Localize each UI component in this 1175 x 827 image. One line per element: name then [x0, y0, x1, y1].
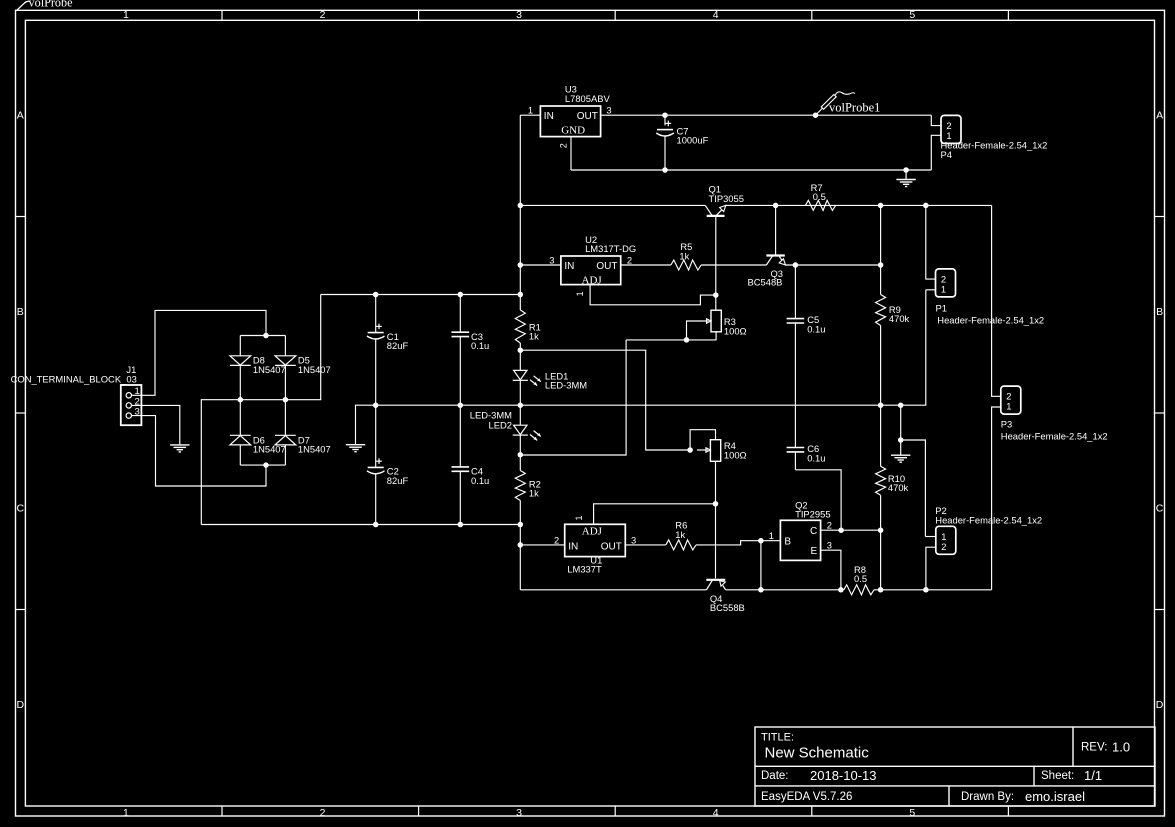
node gnd branch top [898, 437, 904, 443]
node gnd stem P4 [903, 167, 909, 173]
wire U3 pin1 [520, 114, 540, 116]
svg-text:470k: 470k [889, 313, 910, 324]
ground mid rail [346, 445, 365, 452]
node R10/Q2C [878, 527, 884, 533]
C7 labels [677, 125, 709, 145]
terminal block J1 box [121, 385, 142, 425]
wire P4 pin1 down [931, 135, 941, 170]
svg-text:2: 2 [320, 807, 326, 819]
D8 labels [253, 355, 286, 375]
svg-text:0.1u: 0.1u [471, 340, 489, 351]
node bus/top rail [518, 292, 524, 298]
P4 labels [941, 140, 1048, 160]
wire cap bottom rail [201, 524, 520, 526]
svg-text:82uF: 82uF [387, 475, 409, 486]
wire P2 pin1 stub [925, 536, 935, 538]
wire D8 top stem [239, 336, 241, 356]
Q2 pin 2 number [827, 519, 832, 530]
node Q2 base branch [758, 538, 764, 544]
wire R3 bottom [626, 332, 716, 340]
header P1 [936, 269, 956, 297]
node Q2E/rail [838, 587, 844, 593]
D7 labels [298, 434, 331, 454]
regulator U2 box [561, 256, 621, 286]
wire U1 ADJ [594, 504, 716, 525]
diode D5 [275, 356, 296, 366]
node Q3/C5 [793, 262, 799, 268]
svg-text:1k: 1k [529, 331, 539, 342]
U3 labels [565, 84, 611, 104]
Q3 labels [748, 268, 784, 287]
svg-text:TIP2955: TIP2955 [795, 509, 830, 520]
J1 labels [11, 364, 137, 385]
C2 labels [387, 466, 409, 486]
header P2 [936, 526, 956, 554]
wire P1 pin1 [926, 289, 936, 291]
node Q3 base top [773, 203, 779, 209]
wire C6 to Q2 collector [795, 470, 841, 530]
svg-text:1/1: 1/1 [1084, 768, 1102, 783]
svg-text:OUT: OUT [601, 541, 622, 552]
wire R6 to Q2 base [696, 541, 780, 545]
node C1 top [373, 292, 379, 298]
svg-text:100Ω: 100Ω [724, 325, 747, 336]
capacitor C7 [656, 115, 674, 170]
wire left bus upper [519, 115, 521, 310]
Q2 labels [795, 499, 830, 519]
resistor R6 [666, 540, 696, 550]
svg-text:5: 5 [909, 807, 915, 819]
svg-text:1: 1 [528, 105, 533, 116]
svg-text:Sheet:: Sheet: [1041, 770, 1074, 782]
svg-text:0.5: 0.5 [813, 191, 826, 202]
R2 labels [529, 478, 541, 498]
ground right [891, 455, 910, 462]
node bridge bottom [263, 462, 269, 468]
node bridge left mid [238, 397, 244, 403]
wire P3 pin1 [992, 407, 1001, 590]
node C4 bottom [458, 522, 464, 528]
U2 labels [585, 234, 636, 254]
Q1 labels [709, 183, 744, 204]
diode D7 [275, 435, 296, 445]
svg-text:1N5407: 1N5407 [298, 444, 331, 455]
C1 labels [387, 331, 409, 351]
regulator U3 box [540, 106, 600, 137]
R5 labels [679, 241, 692, 261]
R6 labels [675, 520, 687, 540]
wire Q2 collector [821, 529, 881, 531]
node bus/Q1 rail [518, 203, 524, 209]
node C1 bottom [373, 402, 379, 408]
svg-text:Header-Female-2.54_1x2: Header-Female-2.54_1x2 [1001, 430, 1108, 441]
svg-text:0.1u: 0.1u [807, 452, 825, 463]
svg-text:C: C [810, 526, 817, 537]
svg-text:LED2: LED2 [489, 419, 512, 430]
svg-text:1: 1 [1006, 401, 1011, 412]
svg-text:1k: 1k [529, 488, 539, 499]
wire R5 to Q3 [701, 264, 766, 266]
svg-text:4: 4 [713, 9, 719, 21]
node R4 wiper/top [687, 447, 693, 453]
wire bottom rail right [874, 589, 992, 591]
svg-text:L7805ABV: L7805ABV [565, 93, 611, 104]
svg-text:1k: 1k [679, 250, 689, 261]
wire bus to U1 pin2 [520, 544, 564, 546]
wire R1 to LED1 [519, 343, 521, 370]
svg-text:OUT: OUT [596, 261, 617, 272]
wire LED1 to rail [519, 380, 521, 425]
resistor R10 [876, 405, 886, 590]
wire Q1 rail right [726, 204, 992, 206]
svg-text:Drawn By:: Drawn By: [961, 791, 1014, 803]
node Q2C junction [838, 527, 844, 533]
wire P4 pin2 jog [931, 115, 941, 125]
node ADJ/R3/Q1 [713, 292, 719, 298]
wire P3 pin2 [992, 205, 1001, 396]
resistor R8 [844, 585, 874, 595]
R4 labels [724, 440, 747, 460]
svg-text:Header-Female-2.54_1x2: Header-Female-2.54_1x2 [937, 315, 1044, 326]
C5 labels [807, 314, 825, 334]
LED1 labels [545, 370, 587, 390]
U1 labels [567, 555, 602, 575]
svg-text:2: 2 [827, 519, 832, 530]
diode D6 [230, 435, 251, 445]
P3 labels [1001, 418, 1108, 441]
node bridge top [263, 333, 269, 339]
wire gnd rail top loop [571, 169, 931, 171]
ground near J1 [170, 445, 189, 452]
wire Q3 emitter right [786, 264, 881, 266]
node C7 top [662, 112, 668, 118]
wire U2 OUT to R5 [621, 264, 671, 266]
node bridge right mid [283, 397, 289, 403]
svg-text:4: 4 [713, 807, 719, 819]
wire R4 top loop [690, 430, 715, 450]
wire D8 to mid [239, 365, 241, 435]
C3 labels [471, 331, 489, 351]
wire Q2B branch down [760, 541, 762, 590]
svg-text:C: C [1156, 502, 1164, 514]
header P4 [941, 115, 961, 143]
svg-text:P3: P3 [1001, 418, 1012, 429]
wire U2 ADJ [590, 285, 716, 305]
R10 labels [888, 473, 909, 493]
svg-text:Header-Female-2.54_1x2: Header-Female-2.54_1x2 [941, 140, 1048, 151]
svg-text:B: B [784, 536, 791, 547]
node rail/R9R10 [878, 402, 884, 408]
node R9 mid [878, 262, 884, 268]
svg-text:D: D [1156, 699, 1164, 711]
svg-text:1: 1 [123, 9, 129, 21]
wire U3 GND down [570, 137, 572, 170]
D5 labels [298, 355, 331, 375]
svg-text:IN: IN [568, 541, 578, 552]
title block [755, 727, 1155, 806]
D6 labels [253, 434, 286, 454]
svg-text:2: 2 [320, 9, 326, 21]
R9 labels [889, 304, 910, 324]
node R7/R9 top [878, 203, 884, 209]
svg-text:2: 2 [554, 534, 559, 545]
Q4 labels [710, 593, 745, 613]
svg-text:CON_TERMINAL_BLOCK_: CON_TERMINAL_BLOCK_ [11, 374, 127, 385]
svg-text:3: 3 [516, 807, 522, 819]
wire U3 OUT to P4 [601, 114, 932, 116]
transistor Q4 [706, 580, 725, 590]
node C2 bottom [373, 522, 379, 528]
svg-text:ADJ: ADJ [582, 525, 603, 537]
svg-text:Header-Female-2.54_1x2: Header-Female-2.54_1x2 [935, 514, 1042, 525]
capacitor C3 [452, 295, 470, 406]
C4 labels [471, 466, 489, 486]
svg-text:1k: 1k [675, 529, 685, 540]
resistor R5 [671, 260, 701, 270]
diode D8 [230, 356, 251, 366]
transistor Q3 [766, 256, 785, 266]
svg-text:1: 1 [574, 515, 584, 520]
svg-text:P4: P4 [941, 149, 952, 160]
node volProbe1 [813, 112, 819, 118]
svg-text:3: 3 [549, 254, 554, 265]
svg-text:Date:: Date: [761, 770, 789, 782]
svg-text:IN: IN [544, 111, 554, 122]
node R10/rail [878, 587, 884, 593]
regulator U1 box [565, 524, 626, 556]
node bus/U1 pin2 [518, 542, 524, 548]
node R3 bottom/wiper [684, 337, 690, 343]
wire J1 pin2 to ground [132, 405, 180, 445]
svg-text:TITLE:: TITLE: [761, 732, 794, 744]
C6 labels [807, 443, 825, 463]
svg-text:0.1u: 0.1u [807, 323, 825, 334]
transistor Q2 box [780, 520, 820, 560]
svg-text:BC558B: BC558B [710, 602, 745, 613]
U1 pin 1 number [574, 515, 584, 520]
svg-text:EasyEDA V5.7.26: EasyEDA V5.7.26 [761, 791, 852, 803]
svg-text:1: 1 [575, 291, 585, 296]
node bus/U2 pin3 [518, 262, 524, 268]
svg-text:1000uF: 1000uF [677, 135, 709, 146]
capacitor C5 [787, 265, 805, 448]
svg-text:2: 2 [627, 254, 632, 265]
U2 pin 2 number [627, 254, 632, 265]
Q2 pin 3 number [827, 539, 832, 550]
LED LED2 [513, 425, 541, 440]
svg-text:C: C [17, 502, 25, 514]
svg-text:0.5: 0.5 [854, 573, 867, 584]
wire Q2 emitter [821, 550, 841, 590]
node C7 bottom [662, 167, 668, 173]
wire J1 pin1 to bridge top [132, 310, 267, 395]
svg-text:B: B [17, 306, 24, 318]
wire R2 to rail bottom [519, 501, 521, 590]
U1 pin 3 number [631, 534, 636, 545]
capacitor C1 [367, 295, 385, 406]
node P2/rail [923, 587, 929, 593]
P1 labels [936, 303, 1045, 326]
R7 labels [811, 182, 826, 202]
svg-text:volProbe: volProbe [29, 0, 73, 9]
svg-text:OUT: OUT [577, 111, 598, 122]
resistor R7 [805, 200, 835, 210]
svg-text:5: 5 [909, 9, 915, 21]
svg-text:82uF: 82uF [387, 340, 409, 351]
P2 labels [935, 505, 1042, 525]
resistor R1 [515, 310, 525, 343]
node P1 branch [923, 203, 929, 209]
svg-text:D: D [17, 699, 25, 711]
wire R3 net to LED2 [520, 340, 626, 455]
Q2 pin 1 number [769, 530, 774, 541]
svg-text:0.1u: 0.1u [471, 475, 489, 486]
svg-text:2: 2 [941, 541, 946, 552]
wire mid gnd rail [356, 290, 926, 445]
probe volProbe1 [816, 92, 881, 115]
svg-text:BC548B: BC548B [748, 277, 783, 288]
wire bridge top bar [240, 335, 285, 337]
node U1 ADJ junction [713, 501, 719, 507]
node Q2B/rail [758, 587, 764, 593]
LED LED1 [513, 370, 541, 385]
R3 labels [724, 316, 747, 336]
svg-text:TIP3055: TIP3055 [709, 193, 744, 204]
resistor R2 [515, 471, 525, 501]
probe volProbe [17, 0, 73, 10]
wire Q1 base down [715, 217, 717, 310]
svg-text:A: A [1156, 110, 1163, 122]
wire Q1 rail left [520, 204, 705, 206]
svg-text:IN: IN [564, 261, 574, 272]
svg-text:LM337T: LM337T [567, 564, 602, 575]
wire LED2 to R2 [519, 435, 521, 470]
wire bottom rail left [520, 589, 706, 591]
svg-text:volProbe1: volProbe1 [829, 101, 880, 115]
svg-text:LED-3MM: LED-3MM [545, 380, 587, 391]
svg-text:1: 1 [941, 284, 946, 295]
capacitor C2 [367, 405, 385, 524]
capacitor C6 [787, 448, 805, 470]
wire D5 top stem [284, 336, 286, 356]
svg-text:New Schematic: New Schematic [765, 745, 870, 762]
wire bottom rail mid [726, 589, 844, 591]
node bus/cap rail [518, 522, 524, 528]
U2 pin 3 number [549, 254, 554, 265]
wire P1 pin2 [926, 205, 936, 279]
wire D6 to bottom [239, 445, 241, 465]
svg-text:3: 3 [606, 105, 611, 116]
wire D7 to bottom [284, 445, 286, 465]
svg-text:P1: P1 [936, 303, 947, 314]
svg-text:2018-10-13: 2018-10-13 [810, 768, 877, 783]
header P3 [1001, 386, 1021, 414]
trimmer R4 [697, 440, 721, 462]
node LED rail [518, 402, 524, 408]
svg-text:REV:: REV: [1081, 742, 1107, 754]
wire P2 pin2 [926, 547, 936, 590]
resistor R9 [876, 205, 886, 405]
U1 pin 2 number [554, 534, 559, 545]
trimmer R3 [703, 310, 721, 332]
svg-text:GND: GND [561, 124, 585, 136]
svg-text:2: 2 [559, 143, 569, 148]
wire Q3 collector [775, 205, 777, 254]
svg-text:1N5407: 1N5407 [298, 364, 331, 375]
node C3 top [458, 292, 464, 298]
wire bus to U2 pin3 [520, 264, 561, 266]
svg-text:3: 3 [827, 539, 832, 550]
node rail/gnd branch [898, 402, 904, 408]
R8 labels [854, 564, 867, 584]
wire U1 OUT to R6 [625, 544, 666, 546]
wire R1 bottom to R4 [520, 350, 690, 450]
ground near P4 [896, 170, 915, 187]
U3 pin 2 number [559, 143, 569, 148]
svg-text:A: A [17, 110, 24, 122]
svg-text:100Ω: 100Ω [724, 449, 747, 460]
U2 pin 1 number [575, 291, 585, 296]
svg-text:470k: 470k [888, 482, 909, 493]
wire D5 to mid [284, 365, 286, 435]
transistor Q1 [705, 205, 726, 216]
capacitor C4 [452, 405, 470, 524]
svg-text:3: 3 [631, 534, 636, 545]
svg-text:3: 3 [516, 9, 522, 21]
node R1 bottom [518, 347, 524, 353]
svg-text:1: 1 [123, 807, 129, 819]
svg-text:03: 03 [126, 374, 136, 385]
J1 pin numbers [135, 386, 140, 418]
wire bridge bottom bar [240, 464, 285, 466]
svg-text:ADJ: ADJ [582, 274, 603, 286]
wire gnd branch [900, 405, 902, 455]
svg-text:B: B [1156, 306, 1163, 318]
svg-text:1.0: 1.0 [1112, 740, 1130, 755]
svg-text:1: 1 [769, 530, 774, 541]
wire R4 bottom to Q4 [715, 461, 717, 578]
U3 pin 3 number [606, 105, 611, 116]
R1 labels [529, 321, 541, 341]
svg-text:E: E [811, 546, 818, 557]
wire gnd to P2 [901, 440, 926, 537]
wire R3 wiper [687, 321, 704, 340]
wire top rail [321, 294, 521, 296]
node LED2 bottom [518, 452, 524, 458]
wire J1 pin3 to bridge bottom [132, 416, 267, 486]
svg-text:emo.israel: emo.israel [1025, 789, 1085, 804]
U3 pin 1 number [528, 105, 533, 116]
svg-text:LM317T-DG: LM317T-DG [585, 243, 636, 254]
LED2 labels [470, 409, 512, 430]
wire bridge mid rail [201, 295, 320, 525]
node C3 bottom [458, 402, 464, 408]
